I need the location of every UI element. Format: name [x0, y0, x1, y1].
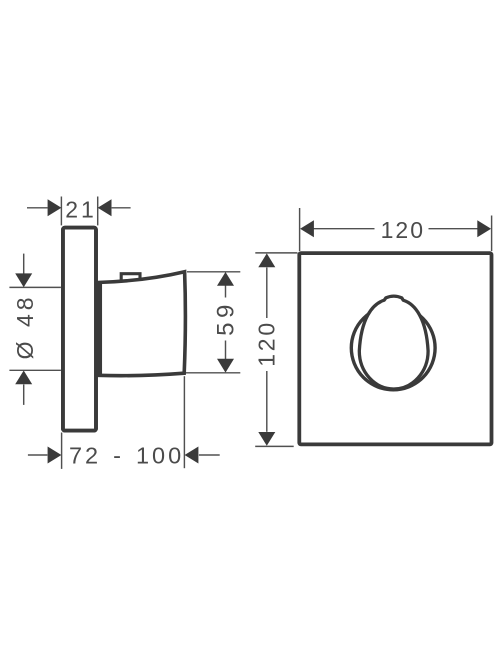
svg-text:21: 21 — [65, 196, 97, 222]
knob left edge line (against plate) — [98, 282, 102, 375]
svg-text:72 - 100: 72 - 100 — [69, 442, 184, 468]
wall plate side view — [63, 228, 96, 431]
dimension 59 extension lines — [186, 272, 240, 373]
svg-text:120: 120 — [381, 217, 425, 243]
dimension 72-100 line + arrows — [28, 447, 220, 464]
knob front view outer circle — [351, 306, 435, 390]
dimension 120 top extension lines — [300, 208, 492, 251]
dimension 120 left extension lines — [255, 253, 297, 447]
knob side view outline — [98, 272, 186, 376]
dimension 72-100 extension lines — [62, 376, 185, 469]
label 120 top — [381, 217, 425, 243]
dimension 59 line + arrows — [217, 272, 234, 373]
label 72 - 100 — [69, 442, 184, 468]
dimension 21 line + arrows — [27, 199, 131, 216]
dimension Ø48 line + arrows — [15, 254, 32, 405]
svg-text:120: 120 — [253, 320, 279, 367]
plate re-stroke (merges with knob edge) — [63, 228, 96, 431]
knob button side view — [121, 274, 140, 286]
label 120 left — [253, 320, 279, 367]
label 59 — [212, 300, 239, 336]
escutcheon front view square — [299, 253, 491, 444]
knob front view drop shape — [359, 296, 428, 389]
dimension Ø48 extension lines — [9, 287, 61, 370]
dimension 21 extension lines — [61, 197, 97, 226]
dimension 120 left line + arrows — [258, 253, 275, 445]
svg-text:Ø 48: Ø 48 — [12, 293, 38, 359]
label 21 — [65, 196, 97, 222]
dimension 120 top line + arrows — [300, 220, 491, 237]
label Ø48 — [12, 293, 38, 359]
svg-text:59: 59 — [212, 300, 239, 336]
